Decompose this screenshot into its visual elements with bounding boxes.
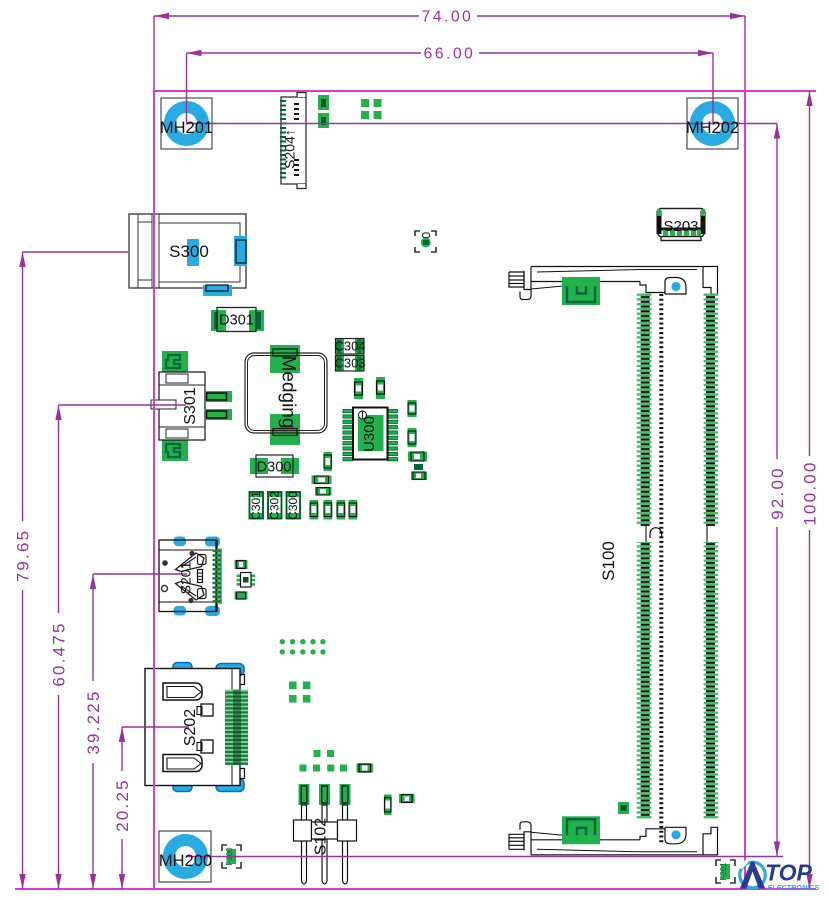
dimension 100.00	[806, 91, 812, 889]
svg-text:D301: D301	[219, 313, 254, 329]
svg-text:S201: S201	[178, 561, 194, 594]
capacitor C302	[267, 491, 283, 520]
svg-text:F201: F201	[719, 862, 728, 881]
svg-text:79.65: 79.65	[14, 529, 33, 583]
svg-text:20.25: 20.25	[113, 778, 132, 832]
svg-text:C301: C301	[249, 491, 263, 520]
svg-text:C303: C303	[334, 356, 365, 371]
pads right of S204	[318, 95, 329, 128]
pin columns	[637, 294, 718, 843]
LED D200	[415, 231, 436, 252]
key notch	[650, 528, 662, 538]
svg-text:C304: C304	[334, 339, 365, 354]
inner shields	[163, 683, 213, 772]
caps right of S102	[384, 794, 415, 815]
resistor right of pad row	[357, 764, 374, 773]
fuse F201	[716, 860, 735, 883]
pad cluster top	[361, 99, 382, 119]
IC U300	[343, 408, 398, 461]
svg-text:100.00: 100.00	[801, 460, 820, 525]
dimension 92.00	[187, 124, 784, 857]
module Medging	[245, 345, 327, 445]
dimension 60.475	[55, 405, 186, 889]
pin block	[225, 690, 248, 766]
bottom clip	[176, 582, 207, 601]
svg-text:60.475: 60.475	[50, 621, 69, 686]
svg-text:C300: C300	[286, 491, 300, 520]
svg-text:39.225: 39.225	[84, 689, 103, 754]
svg-text:92.00: 92.00	[768, 466, 787, 520]
pad row above S102	[300, 765, 348, 772]
svg-text:S203: S203	[663, 218, 698, 235]
svg-text:U300: U300	[361, 416, 378, 452]
small caps cluster mid-board	[310, 452, 358, 520]
mounting hole centerline	[187, 123, 778, 125]
fuse F200	[222, 845, 241, 868]
capacitor column right of U300	[408, 400, 428, 480]
header S102	[294, 784, 357, 884]
capacitor C301	[249, 491, 265, 520]
top clip	[176, 553, 207, 572]
connector S204	[280, 93, 306, 189]
svg-text:C302: C302	[268, 491, 282, 520]
svg-text:S300: S300	[169, 242, 209, 261]
logo TOP Electronics	[740, 860, 820, 893]
dimension 66.00	[187, 50, 714, 124]
top edge extension right	[745, 90, 816, 92]
test point dot grid	[280, 639, 326, 655]
pad pair above S102	[314, 750, 335, 757]
component reference labels	[159, 119, 739, 870]
svg-text:66.00: 66.00	[424, 46, 476, 63]
dimension 79.65	[19, 252, 128, 889]
svg-text:MH200: MH200	[159, 852, 212, 870]
ladder	[198, 570, 203, 583]
bottom edge extension full	[15, 888, 816, 890]
svg-text:TOP: TOP	[765, 860, 813, 886]
svg-text:S102: S102	[313, 818, 330, 855]
dimension 74.00	[154, 13, 745, 90]
svg-text:ELECTRONICS: ELECTRONICS	[768, 883, 820, 892]
S100 top latch arm	[509, 267, 718, 306]
svg-text:MH202: MH202	[686, 119, 739, 137]
parts right of S201	[235, 560, 256, 600]
pad cluster mid	[289, 682, 310, 703]
connector S201	[159, 537, 222, 617]
SODIMM socket S100	[509, 267, 718, 855]
svg-text:S204↑: S204↑	[282, 129, 298, 169]
mounting hole MH200	[159, 831, 211, 882]
mounting hole MH202	[687, 98, 738, 149]
svg-text:S100: S100	[599, 541, 618, 581]
connector S202	[145, 663, 248, 792]
svg-text:S202: S202	[182, 709, 199, 746]
diode D301	[211, 308, 264, 332]
svg-text:MH201: MH201	[160, 119, 213, 137]
svg-text:Medging: Medging	[278, 356, 299, 429]
svg-text:D300: D300	[257, 460, 292, 476]
connector S300	[129, 214, 247, 296]
capacitor C300	[286, 491, 302, 520]
small part left of S100 bottom	[618, 802, 629, 814]
svg-text:74.00: 74.00	[422, 9, 474, 26]
capacitor C304	[335, 339, 364, 355]
capacitor pair below C303	[354, 377, 385, 399]
svg-text:S301: S301	[182, 387, 199, 424]
diode D300	[250, 455, 299, 477]
capacitor C303	[335, 356, 364, 372]
dimension 20.25	[119, 727, 189, 889]
connector S203	[657, 209, 706, 241]
dimension 39.225	[90, 574, 187, 889]
connector S301	[151, 351, 232, 461]
mounting hole MH201	[161, 98, 212, 149]
S100 bottom latch arm	[509, 816, 718, 855]
